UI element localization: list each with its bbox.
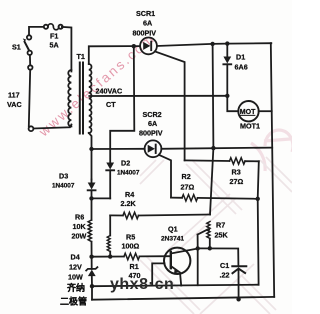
svg-text:117: 117 [8, 91, 20, 100]
wire SCR1 cathode to top-right [157, 43, 271, 46]
node dot SCR2-column [211, 146, 215, 150]
fuse F1 [44, 24, 63, 50]
node dot R7 bottom [208, 246, 212, 250]
motor MOT1 [238, 101, 271, 131]
wire to R6 [91, 198, 93, 220]
svg-text:R3: R3 [232, 168, 241, 177]
svg-text:T1: T1 [77, 52, 85, 61]
svg-text:1N4007: 1N4007 [117, 170, 140, 177]
right edge vertical [271, 43, 274, 297]
SCR2 [139, 110, 163, 157]
R2 [171, 172, 258, 201]
node junction on SCR1 anode wire [132, 44, 136, 48]
vertical from SCR1-anode node down to D2 [110, 46, 134, 162]
svg-text:R6: R6 [75, 213, 84, 222]
D2 [106, 159, 140, 199]
node dot R1 branch [89, 255, 93, 259]
svg-text:.22: .22 [220, 271, 230, 280]
node dot Q1 collector / R7 wiper [196, 246, 200, 250]
R5 [107, 233, 139, 257]
svg-text:R2: R2 [182, 172, 191, 181]
svg-text:12V: 12V [69, 263, 82, 272]
R1 and base bus [92, 253, 171, 280]
R2R3 column down to rail A [258, 161, 259, 284]
node dot D3-D2 junction [89, 196, 93, 200]
svg-text:二极管: 二极管 [60, 296, 87, 307]
svg-text:D4: D4 [71, 253, 80, 262]
wire D2 bottom to left column [92, 197, 111, 199]
svg-text:6A: 6A [143, 19, 152, 28]
svg-text:25K: 25K [215, 231, 229, 240]
rail A [92, 285, 259, 287]
svg-text:27Ω: 27Ω [230, 177, 244, 186]
D1 [223, 44, 247, 96]
wire D3 top [91, 180, 93, 183]
SCR2 gate wire [159, 155, 171, 198]
D4 zener [60, 253, 97, 307]
svg-text:F1: F1 [50, 32, 58, 41]
wire left column to rail B [91, 286, 93, 300]
svg-text:6A6: 6A6 [235, 63, 248, 72]
R6 [72, 213, 92, 242]
transformer T1 [68, 52, 91, 134]
wire R4 corner down to R5 [109, 215, 111, 235]
wire D1 junction down to motor [227, 96, 238, 111]
svg-text:10K: 10K [73, 222, 87, 231]
svg-text:5A: 5A [50, 41, 59, 50]
svg-text:240VAC: 240VAC [96, 87, 123, 96]
svg-text:MOT1: MOT1 [240, 122, 260, 131]
svg-text:1N4007: 1N4007 [52, 183, 75, 190]
svg-text:R1: R1 [130, 262, 139, 271]
svg-text:6A: 6A [148, 119, 157, 128]
node: primary bottom terminal circle [29, 126, 34, 131]
svg-text:D2: D2 [121, 159, 130, 168]
svg-text:MOT: MOT [240, 109, 256, 116]
C1 [220, 261, 247, 299]
svg-text:Q1: Q1 [168, 225, 178, 234]
svg-text:27Ω: 27Ω [181, 183, 195, 192]
svg-text:D1: D1 [236, 53, 245, 62]
wire wiper junction to rail A [197, 248, 199, 285]
wire top-left corner to fuse [29, 27, 44, 35]
svg-text:2N3741: 2N3741 [161, 236, 184, 243]
svg-text:S1: S1 [12, 43, 21, 52]
R3 [185, 158, 259, 186]
node dot SCR2-left [89, 147, 93, 151]
svg-text:R4: R4 [125, 190, 134, 199]
Q1 stub to rail A [152, 263, 164, 285]
switch S1 [12, 35, 33, 70]
svg-text:20W: 20W [72, 232, 87, 241]
node dot [210, 42, 214, 46]
wire secondary bottom / left column top [89, 133, 92, 180]
node dot CT-D1 [225, 94, 229, 98]
svg-text:800PIV: 800PIV [139, 129, 163, 138]
transistor Q1 [161, 225, 198, 286]
node dot rail B C1 [236, 297, 240, 301]
secondary coil [89, 64, 92, 133]
wire secondary top to SCR1 [89, 46, 140, 64]
svg-text:2.2K: 2.2K [121, 199, 137, 208]
svg-text:100Ω: 100Ω [122, 242, 140, 251]
R7 potentiometer [198, 221, 229, 249]
CT wire [89, 95, 227, 97]
wire SCR2 anode [92, 148, 145, 150]
node dot R5 bottom [108, 254, 112, 258]
rail B [92, 297, 274, 300]
SCR1 gate wire [155, 52, 185, 161]
wire fuse to T1 primary top [62, 27, 72, 72]
svg-text:D3: D3 [59, 172, 68, 181]
watermark giant pale letters bottom-right [140, 130, 293, 314]
svg-text:SCR1: SCR1 [136, 9, 155, 18]
node dot rail A left [90, 284, 94, 288]
svg-text:SCR2: SCR2 [143, 110, 162, 119]
node dot [225, 41, 229, 45]
primary coil [68, 70, 71, 126]
svg-text:yhx8·cn: yhx8·cn [110, 274, 174, 293]
vertical column from top node through SCR2 node to R7 [210, 44, 213, 215]
117 VAC left leg [29, 70, 30, 127]
wire primary bottom [33, 125, 71, 129]
svg-text:800PIV: 800PIV [133, 29, 157, 38]
svg-text:齐纳: 齐纳 [67, 282, 85, 293]
wire R7 bottom rail to C1 [198, 248, 239, 265]
wire R6 to D4 [91, 242, 93, 269]
svg-text:10W: 10W [68, 273, 83, 282]
svg-text:C1: C1 [220, 261, 229, 270]
svg-text:R5: R5 [126, 233, 135, 242]
D3 [52, 172, 96, 199]
SCR1 [133, 9, 157, 54]
transformer core [79, 63, 81, 134]
svg-text:VAC: VAC [7, 100, 22, 109]
wire SCR2 cathode to right edge [161, 148, 272, 149]
R4 [110, 190, 210, 219]
svg-text:R7: R7 [216, 221, 225, 230]
svg-text:CT: CT [106, 100, 116, 109]
node dot R2 right [256, 197, 260, 201]
